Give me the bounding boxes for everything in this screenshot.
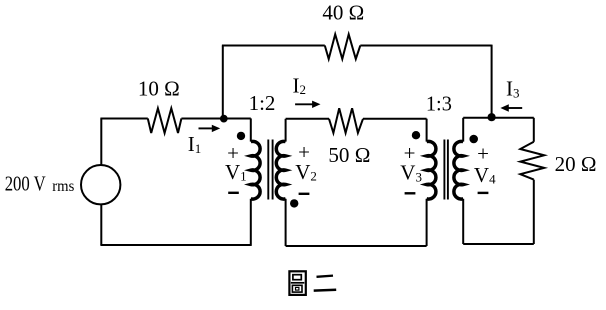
svg-text:50 Ω: 50 Ω [328,143,370,167]
node A junction dot [220,115,228,123]
wire right vertical to 20 ohm [533,118,535,142]
label minus V4 [478,192,489,194]
svg-text:40 Ω: 40 Ω [322,1,364,25]
caption glyph TU (figure) drawn [289,271,305,295]
wire left vertical top (source to top-left corner) [100,119,102,166]
svg-text:I3: I3 [506,77,520,101]
svg-text:I1: I1 [188,132,202,156]
label minus V2 [299,193,310,195]
svg-text:20 Ω: 20 Ω [555,152,597,176]
wire right loop bottom [463,243,534,245]
label 200 Vrms [5,171,75,195]
wire right vertical down to node B [491,45,493,118]
arrow I3 [500,104,522,111]
resistor R 20 ohm [520,142,544,180]
resistor R 50 ohm [329,108,363,133]
label minus V3 [405,192,416,194]
T2 polarity dot secondary (top) [469,135,478,144]
svg-text:200 V: 200 V [5,171,46,195]
T2 polarity dot primary (top) [412,131,420,139]
svg-text:1:3: 1:3 [426,91,452,115]
wire right vertical below 20 ohm [533,180,535,244]
svg-text:10 Ω: 10 Ω [138,77,180,101]
wire left vertical bottom (source to bottom-left corner) [100,204,102,245]
wire middle loop bottom [286,245,427,247]
wire from 10 ohm to node A and on to T1 primary [181,118,250,120]
wire top rail right (40 ohm to right corner) [360,45,491,47]
svg-text:V4: V4 [474,163,496,187]
wire middle loop top (V2 to 50 ohm) [286,118,329,120]
wire top rail left (to 40 ohm) [222,45,325,47]
T1 polarity dot primary (top) [237,132,245,140]
wire bottom of left loop [100,244,250,246]
svg-text:V2: V2 [295,160,317,184]
wire middle loop top (50 ohm to V3) [363,118,427,120]
wire top-left horizontal (corner to 10 ohm resistor) [100,118,147,120]
transformer T1 core lines [268,140,272,200]
svg-text:V3: V3 [400,161,422,185]
transformer T2 core lines [444,140,448,200]
node B junction dot [488,113,496,121]
arrow I2 [295,101,320,108]
transformer T2 primary winding V3 (4 bumps) [426,119,428,142]
arrow I1 [199,125,221,132]
resistor R 10 ohm [148,108,182,133]
label minus V1 [228,192,239,194]
T1 polarity dot secondary (bottom) [290,199,298,207]
resistor R 40 ohm [325,34,361,59]
transformer T2 secondary winding V4 (4 bumps) [462,118,464,142]
transformer T1 primary winding V1 (4 bumps) [250,118,252,141]
svg-text:1:2: 1:2 [249,91,276,115]
voltage source VS circle [81,165,120,204]
wire node A up to top rail [222,46,224,119]
transformer T1 secondary winding V2 (4 bumps) [285,119,287,142]
wire right loop top [463,117,534,119]
caption glyph ER (two) drawn [314,276,337,291]
svg-text:+: + [477,141,489,165]
svg-text:I2: I2 [293,73,307,97]
svg-text:rms: rms [52,178,74,195]
svg-text:V1: V1 [225,160,247,184]
